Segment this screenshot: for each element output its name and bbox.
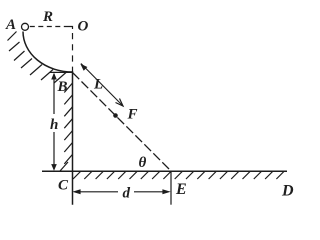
svg-text:C: C xyxy=(58,178,69,194)
d right arrow xyxy=(162,189,170,194)
h top arrow xyxy=(51,73,57,80)
d left arrow xyxy=(72,189,80,194)
ball at A xyxy=(22,23,29,30)
radius dashed line A-O xyxy=(30,26,68,28)
svg-text:L: L xyxy=(93,77,103,93)
svg-text:E: E xyxy=(175,181,187,198)
tick at B xyxy=(50,71,73,73)
ground line C-D xyxy=(42,170,287,172)
dashed line O-B xyxy=(72,33,74,71)
L bottom arrow (open) xyxy=(116,99,124,107)
svg-text:F: F xyxy=(127,107,138,123)
svg-text:h: h xyxy=(50,117,58,133)
svg-text:B: B xyxy=(57,79,68,95)
L top arrow (open) xyxy=(80,64,87,71)
wall hatching xyxy=(60,83,73,171)
corner elbow at O xyxy=(68,27,73,30)
point F xyxy=(113,113,118,118)
ground hatching xyxy=(73,172,284,180)
h bottom arrow xyxy=(51,164,57,171)
h dimension line xyxy=(53,74,55,169)
quarter-circle track A-B xyxy=(23,32,73,73)
svg-text:D: D xyxy=(281,183,294,200)
svg-text:θ: θ xyxy=(139,155,147,171)
svg-text:O: O xyxy=(78,19,89,35)
svg-text:d: d xyxy=(123,186,131,202)
dashed line B-E xyxy=(73,73,172,172)
E extension line below ground xyxy=(170,171,172,204)
d dimension line xyxy=(80,191,163,193)
track hatching xyxy=(8,32,67,84)
wall B-C with extension below ground xyxy=(72,71,74,205)
L dimension line xyxy=(81,64,123,107)
svg-text:R: R xyxy=(42,9,53,25)
svg-text:A: A xyxy=(5,17,16,33)
